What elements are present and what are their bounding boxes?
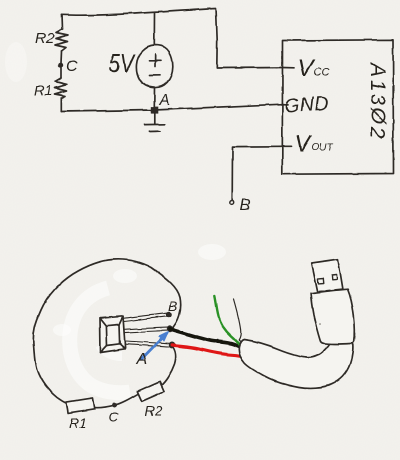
ground [145,114,165,132]
black wire [170,329,249,352]
svg-text:V: V [295,131,313,157]
label Vout [295,131,334,157]
wire R2 to node C [60,51,63,63]
USB plug body [311,289,355,344]
wire R1 to bottom [60,99,62,112]
resistor R1 (rect) [66,398,94,414]
node dot bottom lead [168,342,174,348]
USB contact hole right [332,275,337,280]
pin stub Vout [282,145,292,147]
svg-text:R2: R2 [144,403,162,419]
svg-text:C: C [66,58,78,75]
USB contact hole left [318,278,324,283]
IC box A1302 [282,40,393,174]
node C (sketch) [112,403,117,408]
node B dot (sketch) [166,312,172,318]
svg-text:GND: GND [284,93,330,117]
cable loop wire [33,259,180,404]
USB metal shield [312,259,343,292]
cable sheath tube [239,340,353,388]
minus sign [150,74,161,76]
package corner bevels [100,316,125,352]
svg-text:5V: 5V [109,48,136,78]
lead to red wire (pair) [125,341,169,347]
wire bottom: left loop bottom through node A to GND pin [61,104,282,111]
svg-text:A: A [158,92,170,109]
speck in plug body [319,323,321,325]
svg-text:A13Ø2: A13Ø2 [366,61,389,141]
eraser smudge arc inside loop [70,288,130,393]
lead to B (pair) [123,313,167,321]
pin stub Vcc [282,67,294,69]
blue arrow to A [142,332,168,359]
white blobs [5,42,226,336]
sensor package inner [106,325,119,346]
svg-text:C: C [108,409,119,425]
wire R1 to C to R2 [93,393,141,408]
svg-text:CC: CC [314,67,330,79]
svg-text:R2: R2 [35,30,55,47]
svg-text:OUT: OUT [312,143,334,154]
pin stub GND [282,103,288,105]
svg-text:B: B [168,298,177,314]
svg-text:B: B [240,197,251,214]
wire R2 up right side of loop [161,346,176,387]
lead to black wire (pair) [125,328,167,333]
svg-text:R1: R1 [69,415,87,431]
svg-text:R1: R1 [34,82,52,98]
node C (schematic) [58,62,63,67]
wire top: left loop top to corner, down, to Vcc pin [62,9,282,69]
node dot middle lead [166,326,172,332]
svg-text:A: A [136,351,148,368]
node B (schematic) [230,201,234,205]
5V source circle [136,45,172,88]
resistor R1 (zigzag) [54,78,67,99]
wire top to 5V source [153,13,155,45]
plus sign [149,54,161,67]
red wire [172,345,248,358]
wire node C to R1 [60,67,62,78]
white wire (thin strand) [234,300,247,350]
label Vcc [298,55,330,82]
sensor package outer [100,316,125,352]
node A (filled square) [151,107,158,114]
wire 5V to node A [153,88,155,108]
wire left vertical upper (to R2) [61,15,64,29]
wire Vout to node B [232,146,282,200]
resistor R2 (rect) [137,381,164,401]
green wire [215,296,244,353]
resistor R2 (zigzag) [55,29,68,51]
